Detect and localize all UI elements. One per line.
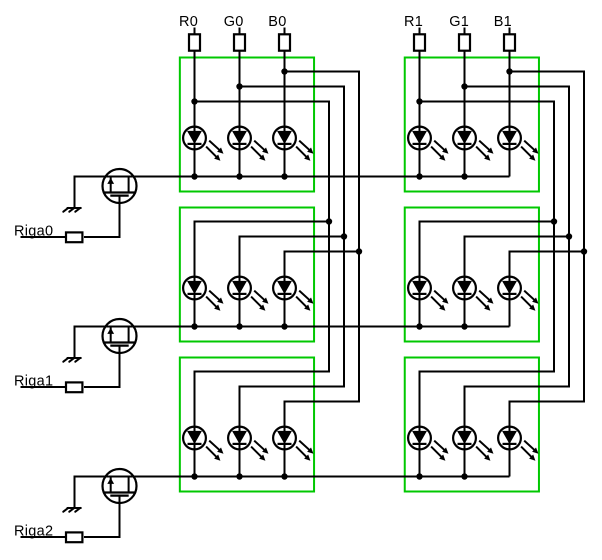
LED D6 (B channel) [498,127,538,161]
junction: box1 jumper on bus B [581,248,587,254]
RGB LED module outline LED-RGB4 [405,208,539,342]
junction: box0 jumper on column G [461,83,467,89]
ground (row 0) [63,208,81,212]
RGB LED module outline LED-RGB3 [180,208,314,342]
wire: column G1 top feed (pin to box0 bottom) [464,28,466,177]
net label Riga2 [14,524,53,540]
wire: B0 box0 jumper + vertical bus + box2 jumper/column [285,72,360,477]
junction: row 0 line at x=464.5 [461,173,467,179]
wire: row 0 line from ground corner through Q1 to LED columns [75,177,510,208]
junction: box1 jumper on bus G [566,233,572,239]
LED D5 (G channel) [453,127,493,161]
svg-text:R1: R1 [404,14,423,30]
svg-text:Riga0: Riga0 [14,224,53,240]
LED D15 (B channel) [273,427,313,461]
wire: B1 box1 jumper + column [510,252,585,327]
junction: row 1 line at x=419.5 [416,323,422,329]
LED D1 (R channel) [183,127,223,161]
svg-text:B0: B0 [268,14,286,30]
net label Riga1 [14,374,53,390]
junction: box0 jumper on column B [281,68,287,74]
junction: row 0 line at x=284.5 [281,173,287,179]
wire: G0 box1 jumper + column [240,237,345,327]
pin G0 (column connector) [234,34,245,50]
wire: B0 box1 jumper + column [285,252,360,327]
wire: G0 box0 jumper + vertical bus + box2 jumper/column [240,87,345,477]
junction: row 2 line at x=194.5 [191,473,197,479]
wire: R1 box0 jumper + vertical bus + box2 jumper/column [420,102,555,477]
wire: column R1 top feed (pin to box0 bottom) [419,28,421,177]
net label G1 [449,14,469,30]
RGB LED module outline LED-RGB6 [405,358,539,492]
LED D16 (R channel) [408,427,448,461]
junction: row 1 line at x=239.5 [236,323,242,329]
pin J6 (Riga2 connector pin) [66,532,82,542]
wire: row 2 line from ground corner through Q3 to LED columns [75,477,510,508]
LED D9 (B channel) [273,277,313,311]
junction: box0 jumper on column B [506,68,512,74]
wire: Q1 gate lead down and left to Riga0 pin [84,196,120,237]
LED D12 (B channel) [498,277,538,311]
wire: G1 box0 jumper + vertical bus + box2 jumper/column [465,87,570,477]
junction: box0 jumper on column R [416,98,422,104]
transistor Q1 (row driver MOSFET) [103,169,137,203]
LED D2 (G channel) [228,127,268,161]
junction: row 0 line at x=419.5 [416,173,422,179]
LED D17 (G channel) [453,427,493,461]
net label G0 [224,14,244,30]
svg-text:R0: R0 [179,14,198,30]
net label B0 [268,14,286,30]
RGB LED module outline LED-RGB2 [405,58,539,192]
junction: row 0 line at x=239.5 [236,173,242,179]
junction: box1 jumper on bus R [551,218,557,224]
ground (row 1) [63,358,81,362]
junction: box1 jumper on bus B [356,248,362,254]
ground (row 2) [63,508,81,512]
junction: row 2 line at x=419.5 [416,473,422,479]
svg-text:G1: G1 [449,14,469,30]
wire: Riga0 net stub [21,236,66,238]
LED D14 (G channel) [228,427,268,461]
junction: row 2 line at x=239.5 [236,473,242,479]
pin R1 (column connector) [414,34,425,50]
wire: column R0 top feed (pin to box0 bottom) [194,28,196,177]
junction: row 2 line at x=284.5 [281,473,287,479]
LED D13 (R channel) [183,427,223,461]
pin B0 (column connector) [279,34,290,50]
LED D8 (G channel) [228,277,268,311]
junction: box1 jumper on bus R [326,218,332,224]
junction: box1 jumper on bus G [341,233,347,239]
wire: Riga2 net stub [21,536,66,538]
RGB LED module outline LED-RGB5 [180,358,314,492]
wire: column G0 top feed (pin to box0 bottom) [239,28,241,177]
LED D4 (R channel) [408,127,448,161]
wire: Q2 gate lead down and left to Riga1 pin [84,346,120,387]
net label Riga0 [14,224,53,240]
wire: column B1 top feed (pin to box0 bottom) [509,28,511,177]
pin B1 (column connector) [504,34,515,50]
net label B1 [494,14,512,30]
pin J4 (Riga0 connector pin) [66,232,82,242]
junction: row 2 line at x=464.5 [461,473,467,479]
wire: column B0 top feed (pin to box0 bottom) [284,28,286,177]
wire: R0 box0 jumper + vertical bus + box2 jumper/column [195,102,330,477]
LED D3 (B channel) [273,127,313,161]
transistor Q2 (row driver MOSFET) [103,319,137,353]
junction: row 1 line at x=464.5 [461,323,467,329]
LED D7 (R channel) [183,277,223,311]
net label R0 [179,14,198,30]
junction: box0 jumper on column R [191,98,197,104]
pin G1 (column connector) [459,34,470,50]
wire: B1 box0 jumper + vertical bus + box2 jumper/column [510,72,585,477]
wire: Riga1 net stub [21,386,66,388]
junction: row 0 line at x=194.5 [191,173,197,179]
LED D11 (G channel) [453,277,493,311]
wire: R0 box1 jumper + column [195,222,330,327]
wire: G1 box1 jumper + column [465,237,570,327]
wire: Q3 gate lead down and left to Riga2 pin [84,496,120,537]
transistor Q3 (row driver MOSFET) [103,469,137,503]
svg-text:B1: B1 [494,14,512,30]
pin R0 (column connector) [189,34,200,50]
net label R1 [404,14,423,30]
LED D10 (R channel) [408,277,448,311]
RGB LED module outline LED-RGB1 [180,58,314,192]
wire: row 1 line from ground corner through Q2 to LED columns [75,327,510,358]
junction: box0 jumper on column G [236,83,242,89]
svg-text:G0: G0 [224,14,244,30]
junction: row 1 line at x=284.5 [281,323,287,329]
LED D18 (B channel) [498,427,538,461]
junction: row 1 line at x=194.5 [191,323,197,329]
wire: R1 box1 jumper + column [420,222,555,327]
svg-text:Riga1: Riga1 [14,374,53,390]
pin J5 (Riga1 connector pin) [66,382,82,392]
svg-text:Riga2: Riga2 [14,524,53,540]
